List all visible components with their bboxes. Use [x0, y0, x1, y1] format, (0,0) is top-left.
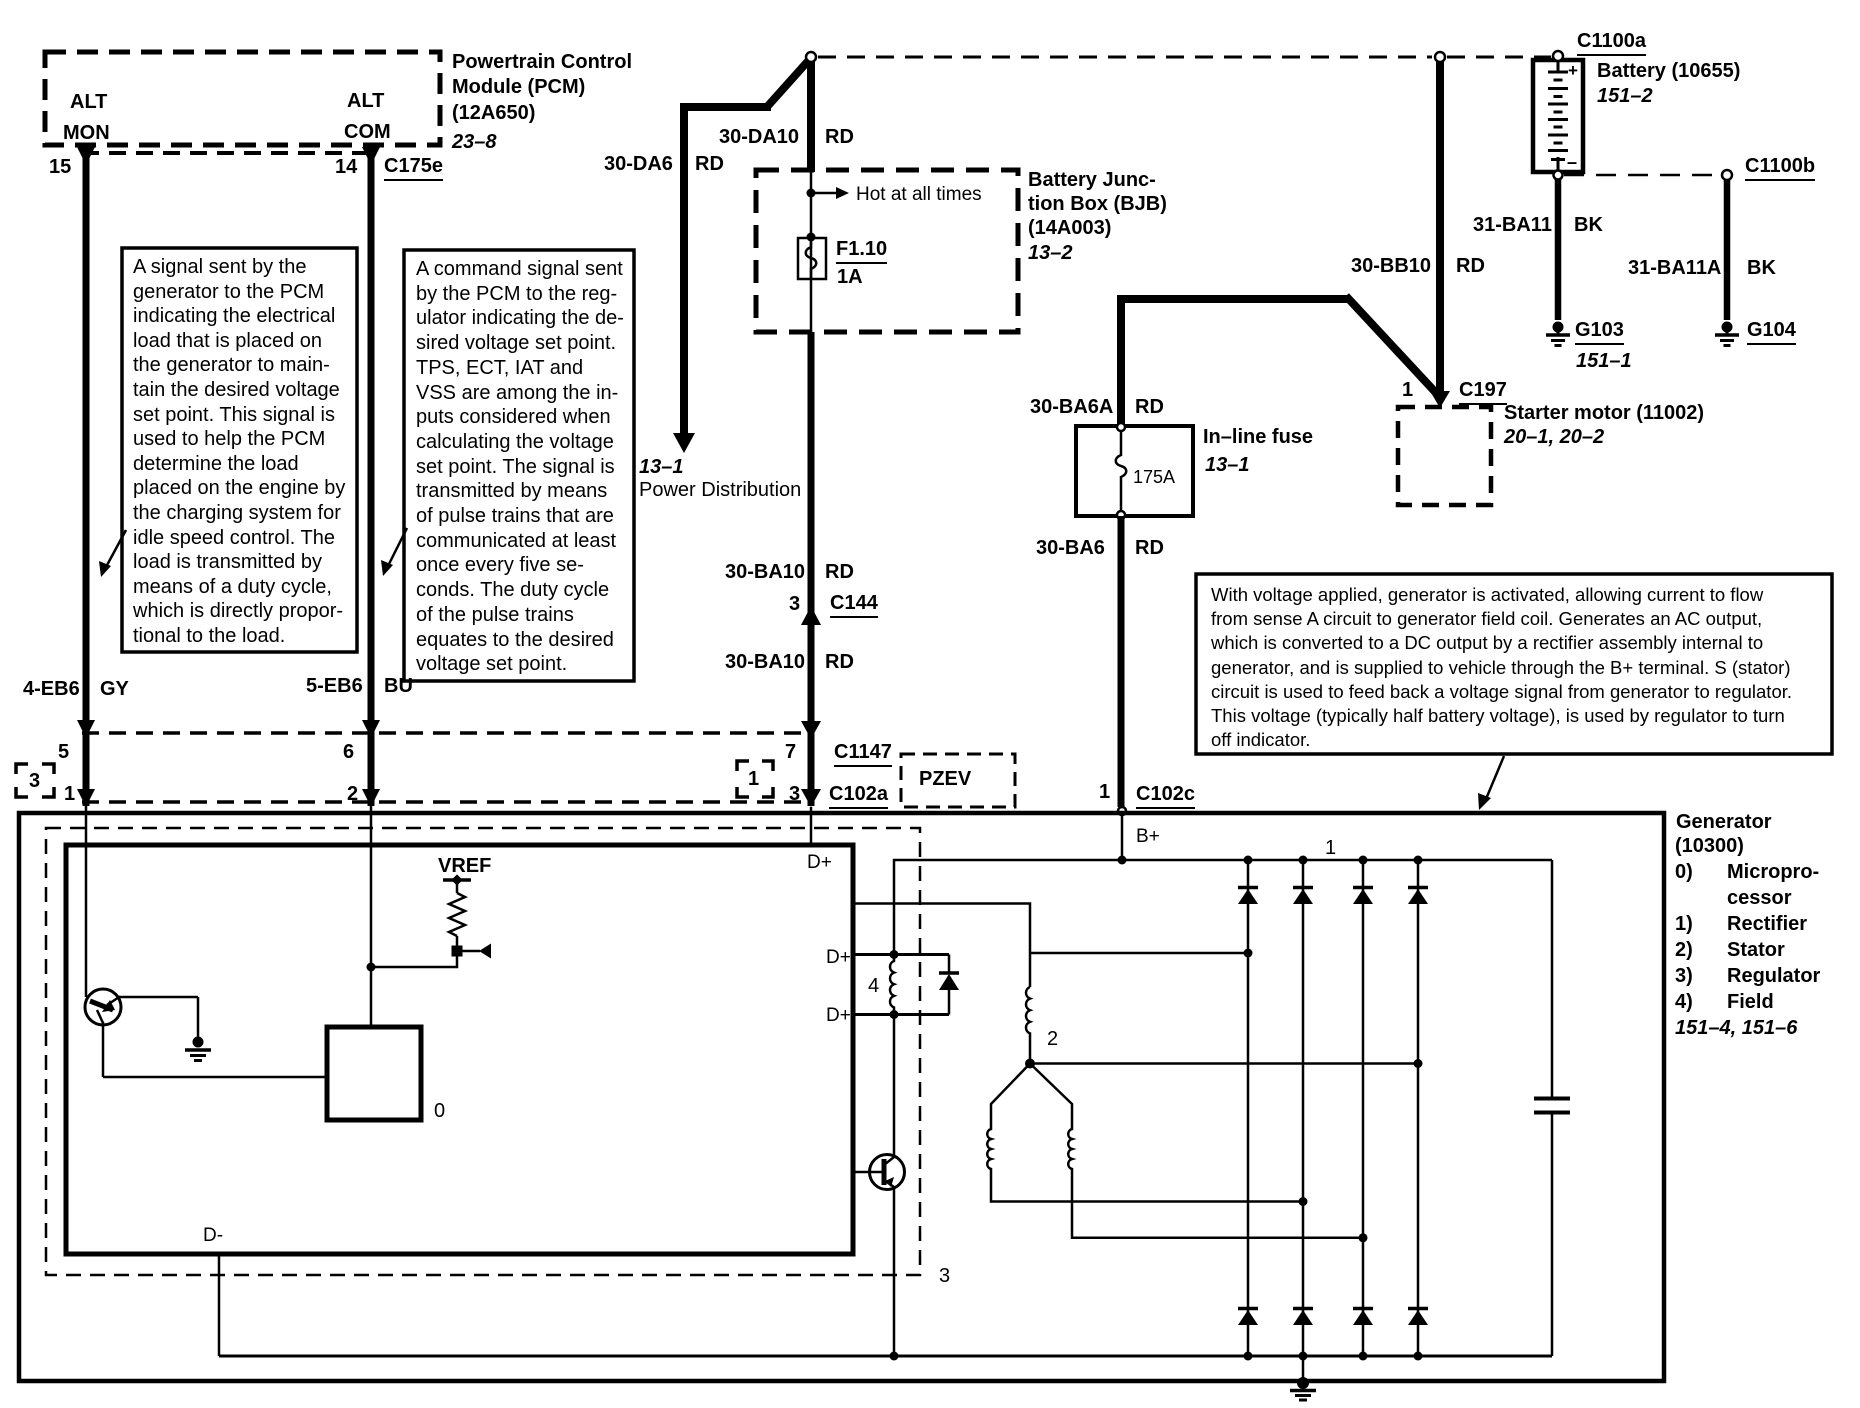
connector C175e label	[384, 156, 443, 176]
destination 13-1 Power Distribution	[639, 457, 684, 477]
legend item 2 stator	[1675, 940, 1693, 960]
legend page refs	[1675, 1018, 1797, 1038]
generator description box border	[1196, 574, 1832, 754]
connector C197 pin 1 label	[1402, 380, 1413, 400]
wire label 31-BA11A BK	[1628, 258, 1721, 278]
connector C1147 label	[834, 742, 892, 762]
legend item 1 rectifier	[1675, 914, 1693, 934]
B+ label	[1136, 827, 1160, 846]
field 4 label	[868, 976, 879, 996]
wire pin2 into regulator (to microprocessor)	[367, 806, 376, 1027]
legend item 3 regulator	[1675, 966, 1693, 986]
wire pin1 into regulator (to transistor base)	[85, 806, 88, 997]
Q1 emitter wire to microprocessor box	[103, 1022, 327, 1077]
generator description text	[1211, 583, 1792, 752]
VREF label	[438, 856, 491, 876]
dashed link battery negative to C1100b	[1564, 174, 1721, 177]
field D+ rail lower	[853, 1010, 949, 1019]
bracket 1 label	[748, 769, 759, 789]
B+ feed into bus	[1118, 814, 1127, 865]
Q1 collector wire to internal ground	[119, 997, 198, 1040]
connector C1100a label	[1577, 31, 1646, 51]
in-line fuse title label	[1203, 427, 1313, 447]
PZEV dashed tag box	[901, 754, 1015, 807]
wire inside BJB	[810, 172, 813, 332]
wire 30-BA6 RD (fuse to C102c)	[1118, 516, 1125, 807]
battery polarity marks	[1568, 62, 1578, 79]
dashed bracket 1 (C1147 connector group)	[737, 761, 773, 797]
smoothing capacitor	[1534, 860, 1570, 1356]
internal ground symbol	[185, 1037, 211, 1061]
connector row C102a dashed line	[82, 800, 814, 804]
connector C1100b label	[1745, 156, 1815, 176]
arrow from note box 2 to wire 14	[381, 528, 407, 576]
stator sense line from regulator	[853, 904, 1030, 988]
connector C1100a circle	[1553, 51, 1563, 61]
wire 30-BB10 RD from top bus to C197	[1430, 61, 1450, 408]
regulator 3 label	[939, 1266, 950, 1286]
fuse F1.10 1A	[798, 233, 826, 280]
Starter motor dashed box	[1398, 407, 1491, 505]
ground G104	[1715, 322, 1739, 346]
wire 14 ALT COM (5-EB6 BU)	[362, 146, 380, 807]
connector pin numbers 5 6 7	[58, 742, 69, 762]
connector C102a label	[829, 784, 888, 804]
arrow from description box to generator	[1478, 756, 1504, 810]
D+ label bottom	[826, 1006, 851, 1025]
field D+ rail upper	[853, 950, 949, 959]
regulator section 3 dashed box	[46, 828, 920, 1275]
wire label 30-BA6 RD	[1036, 538, 1105, 558]
rectifier column 2	[1299, 856, 1308, 1361]
battery title label	[1597, 61, 1740, 81]
rectifier column 1	[1244, 856, 1253, 1361]
wire label 5-EB6 BU	[306, 676, 363, 696]
note box 1 border	[122, 248, 357, 652]
D- label	[203, 1226, 223, 1245]
note box 1 text	[133, 255, 345, 649]
generator legend title	[1676, 812, 1772, 832]
comparator input stub with arrow	[452, 944, 492, 959]
D+ label middle	[826, 948, 851, 967]
regulator module solid box	[66, 845, 853, 1254]
wire 30-BA10 RD (BJB down to C144 and C102a)	[801, 332, 821, 807]
wire 15 ALT MON (4-EB6 GY)	[77, 146, 95, 807]
VREF reference and resistor	[443, 874, 471, 951]
connector C102c circle on generator box	[1118, 807, 1126, 815]
D+ label top	[807, 853, 832, 872]
wire 31-BA11A BK C1100b to G104	[1724, 180, 1731, 320]
Battery Junction Box (BJB 14A003) dashed box	[756, 170, 1018, 332]
PZEV tag label	[919, 769, 971, 789]
generator case ground	[1290, 1356, 1316, 1400]
generator (10300) outer box	[19, 813, 1664, 1381]
field coil 4	[890, 955, 894, 1015]
node where 30-BB10 drops from top bus	[1435, 52, 1445, 62]
bracket 3 label	[29, 771, 40, 791]
VREF branch to pin2 wire	[371, 951, 457, 967]
stator winding top leg	[1025, 949, 1253, 1069]
field flyback diode	[939, 955, 959, 1015]
wire 31-BA11 BK battery to G103	[1555, 179, 1562, 320]
microprocessor 0 label	[434, 1101, 445, 1121]
connector C1100b circle	[1722, 170, 1732, 180]
rectifier column 4	[1414, 856, 1423, 1361]
rectifier column 3	[1359, 856, 1368, 1361]
note box 2 border	[404, 250, 634, 681]
starter motor title label	[1504, 403, 1704, 423]
fuse rating 175A label	[1133, 468, 1175, 486]
wire label 4-EB6 GY	[23, 679, 80, 699]
legend item 0 microprocessor	[1675, 862, 1693, 882]
PCM title label	[452, 52, 632, 72]
ground G104 label	[1747, 320, 1796, 340]
transistor Q2 (regulator output, right)	[853, 1015, 905, 1357]
connector C102c pin 1 label	[1099, 782, 1110, 802]
BJB title label	[1028, 170, 1156, 190]
legend item 4 field	[1675, 992, 1693, 1012]
wire label 30-BA10 RD upper	[725, 562, 805, 582]
stator 2 label	[1047, 1029, 1058, 1049]
battery (10655) symbol	[1533, 60, 1583, 174]
D- wire from regulator to ground rail	[218, 1254, 221, 1356]
wire label 30-DA6 RD	[604, 154, 673, 174]
ground G103 label	[1575, 320, 1624, 340]
rectifier bottom diodes	[1238, 1309, 1428, 1326]
transistor Q1 (regulator, left)	[85, 989, 121, 1025]
rectifier 1 label	[1325, 838, 1336, 858]
wire 30-DA6 RD with arrow to 13-1 Power Distribution	[673, 60, 809, 453]
wire label 30-BA6A RD	[1030, 397, 1113, 417]
note box 2 text	[416, 257, 624, 677]
wire stub D+ into regulator	[810, 807, 813, 845]
wire 30-DA10 RD (node down into BJB)	[807, 61, 815, 172]
connector C144 pin 3 label	[789, 594, 800, 614]
stator winding right leg	[1030, 1064, 1368, 1243]
wire label 30-DA10 RD	[719, 127, 799, 147]
top dashed bus to battery	[818, 56, 1551, 59]
regulator D+ top rail to B+ bus	[894, 860, 1552, 954]
wire label 30-BB10 RD	[1351, 256, 1431, 276]
arrow from note box 1 to wire 15	[99, 530, 126, 577]
microprocessor box 0	[327, 1027, 421, 1120]
fuse F1.10 1A label	[836, 239, 887, 259]
PCM pin name ALT COM	[347, 91, 384, 111]
connector row C1147 dashed line	[82, 731, 814, 735]
ground rail at bottom of generator	[219, 1352, 1552, 1361]
stator winding left leg	[987, 1064, 1307, 1207]
in-line fuse 175A box	[1076, 423, 1193, 519]
PCM module box (12A650)	[45, 52, 440, 153]
pin 15 label	[49, 157, 71, 177]
Hot at all times feed arrow	[807, 187, 850, 199]
dashed bracket 3 (left connector group)	[16, 764, 54, 797]
pin 14 label	[335, 157, 357, 177]
wire label 31-BA11 BK	[1473, 215, 1552, 235]
ground G103	[1546, 322, 1570, 346]
rectifier top diodes	[1238, 888, 1428, 905]
Hot at all times label	[856, 185, 982, 204]
wire label 30-BA10 RD lower	[725, 652, 805, 672]
node at top of 30-DA10 wire	[806, 52, 816, 62]
connector pin numbers 1 2 3	[64, 784, 75, 804]
connector circle at battery negative	[1554, 171, 1563, 180]
wire from C197 to in-line fuse (30-BA6A)	[1117, 295, 1438, 424]
stator phase line to rectifier column 4	[1030, 1059, 1423, 1068]
PCM pin name ALT MON	[70, 92, 107, 112]
